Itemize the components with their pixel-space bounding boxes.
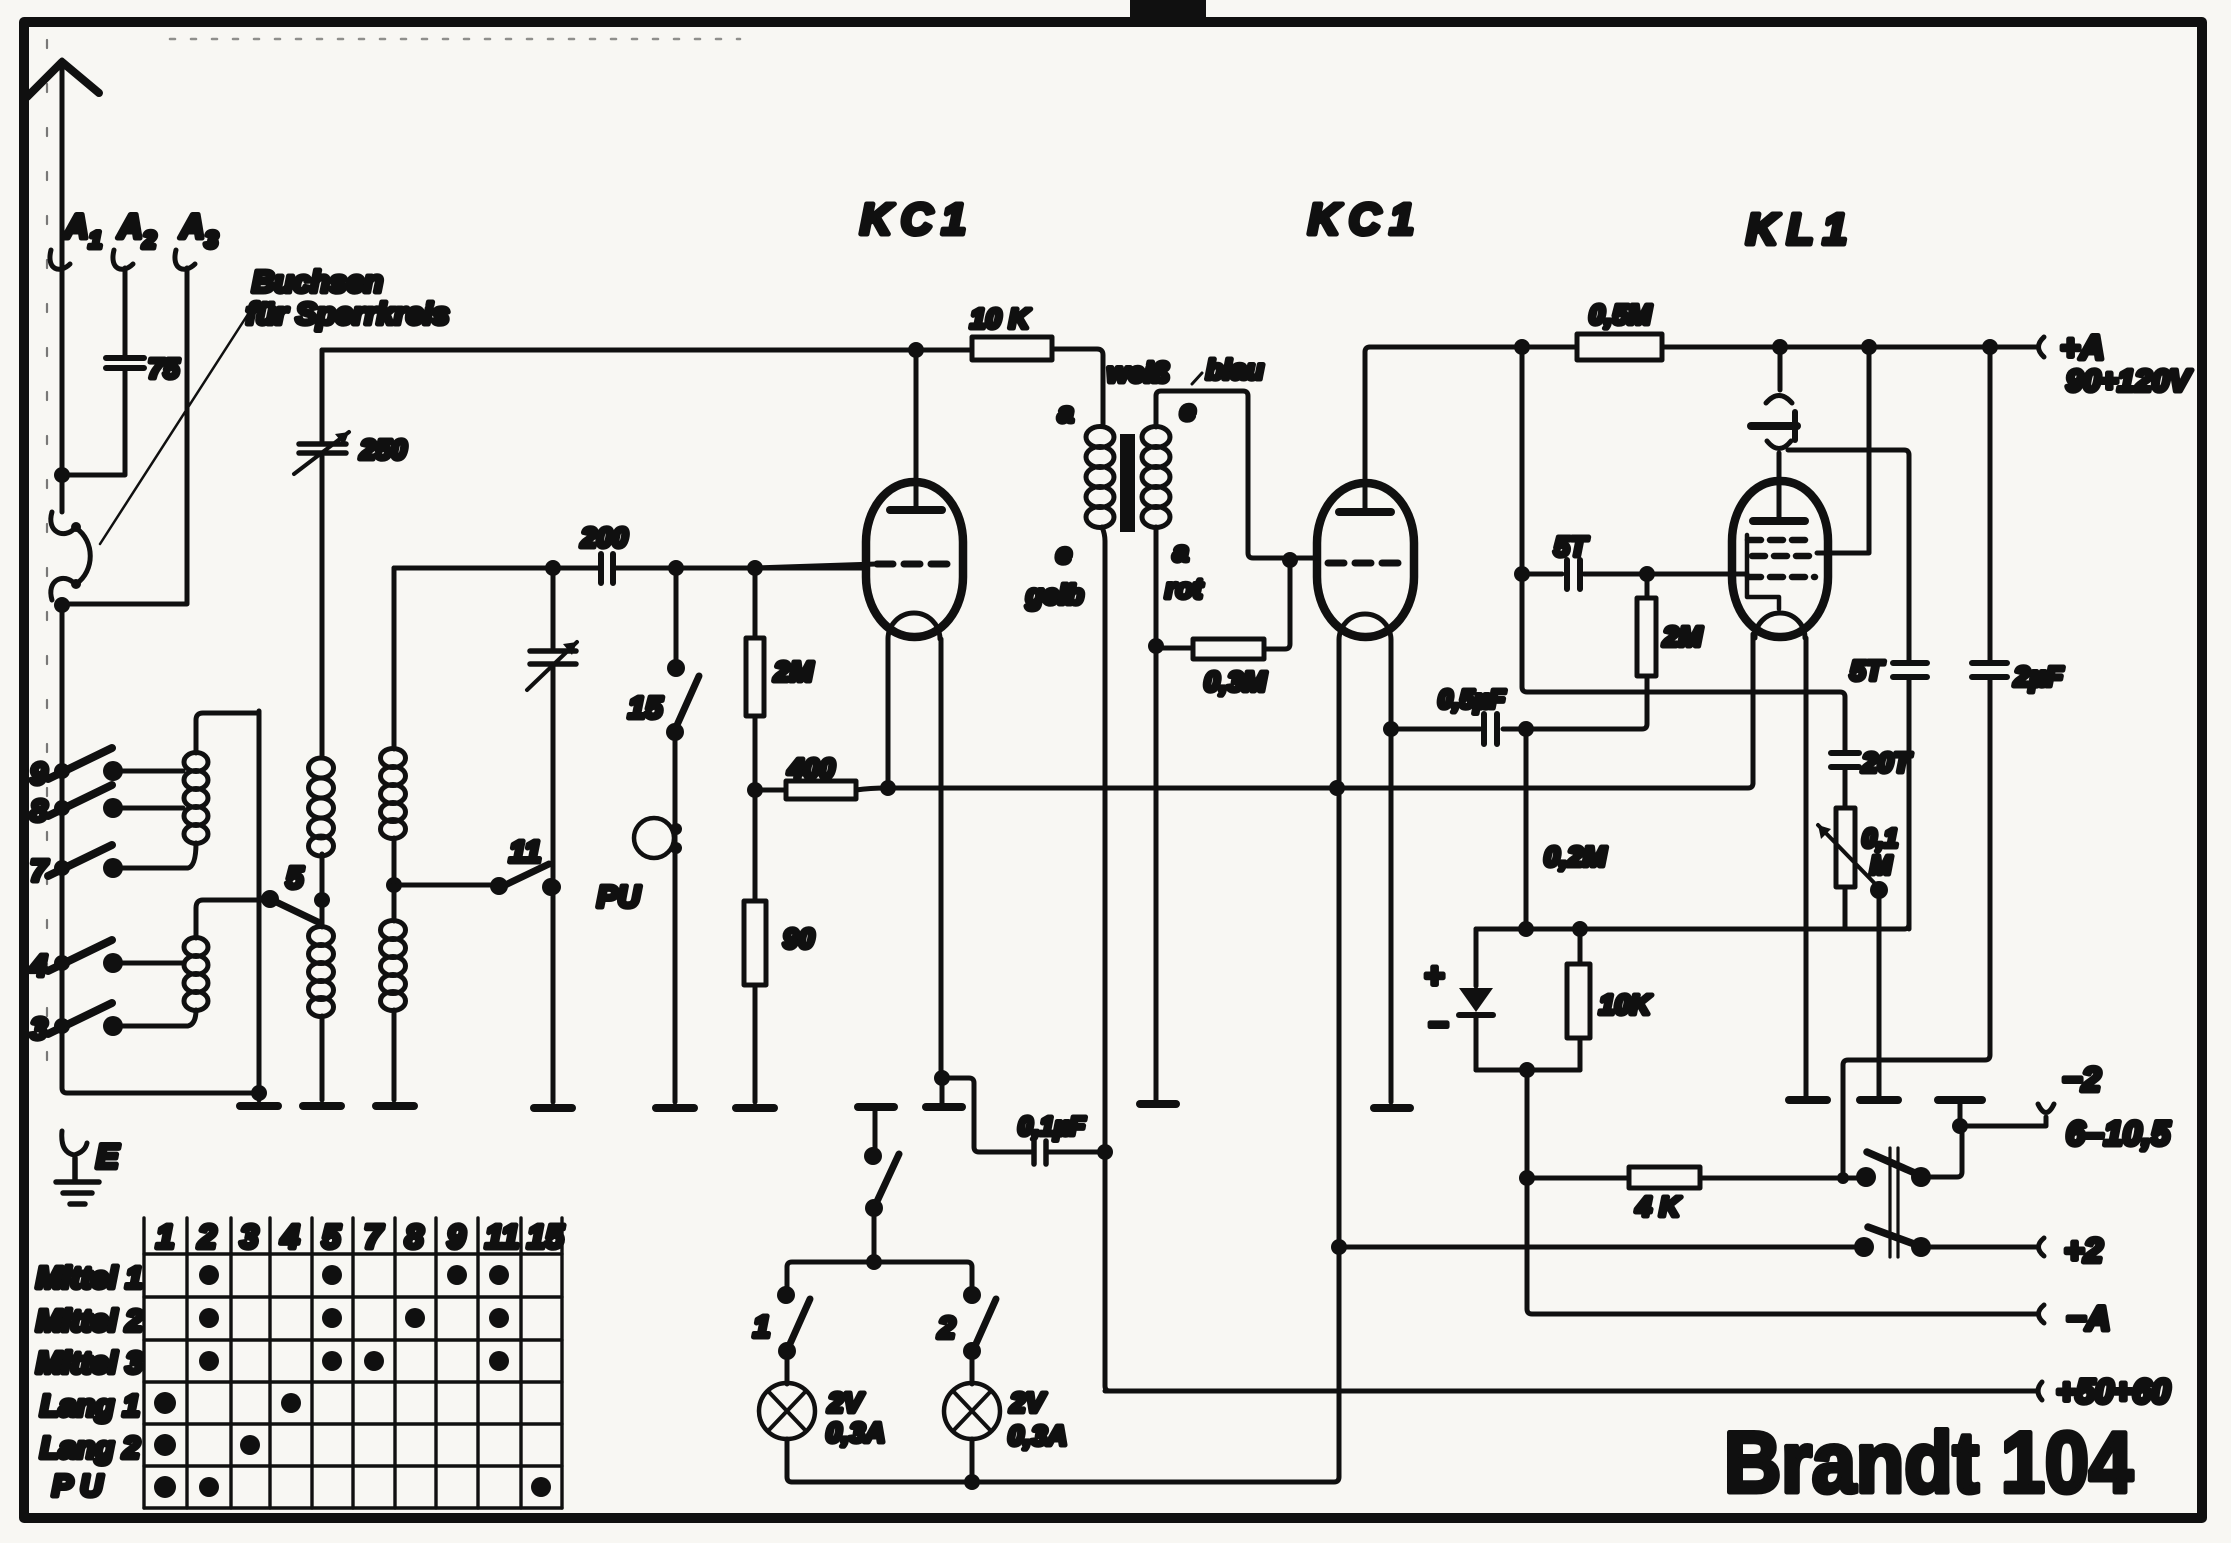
svg-text:2V: 2V bbox=[827, 1387, 865, 1418]
wire KL1 filament right leg bbox=[1804, 638, 1809, 1096]
svg-text:2M: 2M bbox=[773, 656, 814, 687]
terminal -A bbox=[2039, 1305, 2045, 1323]
wire grid line bus 200 bbox=[394, 566, 866, 571]
Buchsen fuer Sperrkreis sockets bbox=[51, 512, 90, 600]
svg-text:0,1: 0,1 bbox=[1862, 823, 1898, 853]
anode tube1 bbox=[890, 506, 942, 514]
ground chassis bar left1 bbox=[240, 1102, 278, 1110]
wire top cap to 5T column bbox=[1788, 450, 1909, 660]
node +2 tee bbox=[1331, 1239, 1347, 1255]
wire lamp return bbox=[792, 1247, 1339, 1482]
wire KL1 filament left leg joins bias line bbox=[1751, 638, 1756, 783]
jack PU bbox=[634, 818, 674, 858]
svg-text:KL1: KL1 bbox=[1746, 205, 1856, 254]
node coil R tap bbox=[386, 877, 402, 893]
svg-text:−2: −2 bbox=[2062, 1061, 2101, 1099]
wire main left column bbox=[62, 600, 259, 1093]
switch battery lower bbox=[1868, 1227, 1925, 1248]
svg-text:10 K: 10 K bbox=[970, 303, 1031, 334]
svg-text:Brandt 104: Brandt 104 bbox=[1724, 1414, 2133, 1511]
svg-text:10K: 10K bbox=[1599, 989, 1652, 1020]
svg-text:KC1: KC1 bbox=[1308, 195, 1423, 244]
svg-text:0,3A: 0,3A bbox=[1008, 1420, 1067, 1451]
transformer primary a-e bbox=[1086, 427, 1114, 448]
transformer secondary e-a bbox=[1142, 427, 1170, 448]
node tube1 filament left bbox=[880, 780, 896, 796]
svg-text:9: 9 bbox=[30, 756, 48, 791]
coil M tuning coil upper bbox=[309, 758, 334, 778]
svg-text:Mittel 3: Mittel 3 bbox=[36, 1345, 143, 1380]
ground chassis bar pot bbox=[1860, 1096, 1898, 1104]
lamp 2 bbox=[970, 1351, 975, 1384]
svg-text:0,5M: 0,5M bbox=[1589, 299, 1652, 330]
svg-text:gelb: gelb bbox=[1025, 579, 1084, 610]
terminal +A bbox=[2039, 337, 2045, 357]
wire lamp rail bbox=[787, 1262, 972, 1295]
ground chassis bar left2 bbox=[303, 1102, 341, 1110]
resistor 2M grid leak bbox=[753, 568, 758, 790]
grid tube1 bbox=[877, 561, 955, 568]
svg-text:90: 90 bbox=[783, 923, 815, 954]
svg-text:6–10,5: 6–10,5 bbox=[2066, 1115, 2171, 1153]
svg-text:+A: +A bbox=[2060, 329, 2104, 367]
capacitor 0.5uF bbox=[1391, 727, 1526, 732]
capacitor 75 bbox=[106, 358, 144, 368]
ground chassis bar lamp switch bbox=[858, 1103, 894, 1111]
capacitor 5T coupling bbox=[1522, 572, 1747, 577]
node 2uF top bbox=[1982, 339, 1998, 355]
svg-text:250: 250 bbox=[359, 434, 407, 465]
wire antenna lead A1 bbox=[60, 60, 65, 512]
svg-text:Lang 1: Lang 1 bbox=[40, 1388, 140, 1423]
node screen feed bbox=[1861, 339, 1877, 355]
cathode tube1 bbox=[888, 613, 940, 639]
svg-text:15: 15 bbox=[628, 690, 663, 725]
capacitor 5T anode bbox=[1893, 663, 1927, 677]
ground chassis bar PU bbox=[656, 1104, 694, 1112]
ganged switch link bbox=[1890, 1148, 1898, 1257]
capacitor trimmer variable bbox=[551, 568, 556, 887]
svg-text:4: 4 bbox=[29, 948, 47, 983]
coil R reaction coil upper bbox=[392, 568, 397, 749]
svg-text:90÷120V: 90÷120V bbox=[2066, 363, 2192, 398]
node secondary bottom bbox=[1148, 638, 1164, 654]
svg-text:0,5µF: 0,5µF bbox=[1438, 684, 1506, 714]
svg-text:0,3M: 0,3M bbox=[1204, 666, 1267, 697]
svg-text:75: 75 bbox=[148, 353, 180, 384]
node trimmer bottom / switch 11 bbox=[545, 879, 561, 895]
transformer core bbox=[1120, 434, 1135, 532]
wire A3 lead bbox=[62, 268, 187, 604]
wire anode supply rail left bbox=[322, 348, 972, 353]
wire trimmer to ground bbox=[551, 887, 556, 1102]
node A3 junction bbox=[54, 597, 70, 613]
svg-text:3: 3 bbox=[30, 1011, 47, 1046]
svg-text:0,1µF: 0,1µF bbox=[1018, 1111, 1086, 1141]
svg-text:a: a bbox=[1173, 536, 1189, 567]
table wave switch chart bbox=[144, 1218, 562, 1508]
wire common column bbox=[257, 711, 262, 1100]
svg-text:weiß: weiß bbox=[1107, 357, 1169, 388]
svg-text:für Sperrkreis: für Sperrkreis bbox=[246, 296, 449, 331]
top cap connector bbox=[1778, 347, 1783, 390]
ground earth symbol bbox=[56, 1158, 99, 1204]
wire contact 3 bbox=[113, 1024, 186, 1029]
socket E bbox=[62, 1131, 87, 1155]
svg-text:blau: blau bbox=[1206, 354, 1264, 385]
pot body bottom lead bbox=[1843, 887, 1848, 929]
resistor 0.3M bbox=[1156, 646, 1193, 651]
wire to capacitor 0.1 bbox=[942, 1078, 1031, 1152]
socket A2 bbox=[113, 250, 133, 269]
node 4K tee bbox=[1519, 1170, 1535, 1186]
wire A2 lead bbox=[62, 268, 125, 475]
grids KL1 bbox=[1748, 537, 1812, 544]
wire tube2 filament left leg bbox=[1337, 640, 1342, 1247]
resistor 10K bias bbox=[1578, 929, 1583, 1070]
svg-text:2: 2 bbox=[197, 1218, 217, 1255]
node bias 0.2M top bbox=[1518, 721, 1534, 737]
node tone column top bbox=[1514, 339, 1530, 355]
svg-text:15: 15 bbox=[527, 1218, 564, 1255]
svg-text:7: 7 bbox=[364, 1218, 384, 1255]
svg-text:P U: P U bbox=[52, 1468, 104, 1503]
svg-text:11: 11 bbox=[485, 1218, 519, 1255]
svg-text:A1: A1 bbox=[63, 208, 102, 254]
switch battery upper bbox=[1867, 1152, 1924, 1177]
capacitor 20T bbox=[1831, 753, 1859, 767]
wire tap to switch 11 bbox=[394, 883, 499, 888]
svg-text:+50÷60: +50÷60 bbox=[2056, 1373, 2170, 1411]
cathode KL1 bbox=[1755, 613, 1805, 638]
wire contact 9 bbox=[113, 769, 183, 774]
capacitor 200 bbox=[601, 554, 613, 583]
socket A1 bbox=[50, 250, 70, 269]
svg-text:PU: PU bbox=[597, 879, 642, 914]
svg-text:e: e bbox=[1180, 395, 1196, 426]
wire transformer primary to +50 line bbox=[1105, 1152, 1110, 1391]
node A1-A2 junction bbox=[54, 467, 70, 483]
wire tube1 filament right leg bbox=[939, 639, 944, 1078]
antenna bbox=[27, 62, 99, 97]
node 0.2M bottom bbox=[1518, 921, 1534, 937]
wire 5T column to feedback line bbox=[1907, 679, 1912, 929]
svg-text:8: 8 bbox=[30, 793, 48, 828]
svg-text:Lang 2: Lang 2 bbox=[40, 1430, 140, 1465]
svg-text:Mittel 2: Mittel 2 bbox=[36, 1303, 143, 1338]
svg-text:20T: 20T bbox=[1861, 747, 1913, 778]
node trimmer top bbox=[545, 560, 561, 576]
svg-text:−A: −A bbox=[2066, 1300, 2110, 1338]
node grid tube2 bbox=[1282, 552, 1298, 568]
grid tube2 bbox=[1328, 560, 1406, 567]
svg-text:A3: A3 bbox=[179, 208, 219, 254]
potentiometer 0.1M bbox=[1843, 767, 1848, 808]
wire contact 8 bbox=[113, 806, 183, 811]
scan fold dashed line bbox=[46, 40, 48, 1085]
node bias bottom bbox=[1519, 1062, 1535, 1078]
screen lead KL1 bbox=[1817, 347, 1869, 553]
wire switch 11 to cap column bbox=[551, 885, 553, 890]
svg-text:11: 11 bbox=[509, 834, 541, 869]
ground chassis bar tube1 bbox=[940, 1078, 945, 1103]
svg-text:5: 5 bbox=[286, 860, 304, 895]
capacitor 0.1uF bbox=[1034, 1141, 1046, 1164]
ground chassis bar trimmer bbox=[534, 1104, 572, 1112]
svg-text:rot: rot bbox=[1165, 573, 1204, 604]
wire contact 4 bbox=[113, 961, 183, 966]
node top cap feed bbox=[1772, 339, 1788, 355]
svg-text:E: E bbox=[96, 1138, 120, 1176]
node bias divider bbox=[747, 782, 763, 798]
node tube1 filament right bbox=[934, 1070, 950, 1086]
resistor 0.5M bbox=[1577, 334, 1662, 360]
coil L2 antenna coil lower bbox=[196, 900, 259, 938]
wire bias to -A bbox=[1527, 1070, 2036, 1314]
svg-text:A2: A2 bbox=[117, 208, 157, 254]
wire tube1 filament left leg bbox=[886, 639, 891, 788]
resistor 400 bbox=[755, 788, 786, 793]
svg-text:5: 5 bbox=[322, 1218, 341, 1255]
svg-text:200: 200 bbox=[580, 522, 628, 553]
wire contact 7 bbox=[113, 866, 186, 871]
svg-text:+: + bbox=[1424, 957, 1444, 995]
node coil M tap bbox=[314, 892, 330, 908]
svg-text:2M: 2M bbox=[1662, 621, 1703, 652]
node 5T junction bbox=[1514, 566, 1530, 582]
ground chassis bar minus2 bbox=[1938, 1096, 1982, 1104]
node transformer primary bottom bbox=[1097, 1144, 1113, 1160]
svg-text:5T: 5T bbox=[1554, 531, 1590, 562]
node tube1 anode bbox=[908, 342, 924, 358]
ground chassis bar secondary bbox=[1140, 1100, 1176, 1108]
svg-text:7: 7 bbox=[30, 853, 49, 888]
socket A3 bbox=[175, 250, 195, 269]
cathode tube2 bbox=[1339, 614, 1391, 640]
coil M tuning coil lower bbox=[320, 900, 325, 927]
ground chassis bar 90 bbox=[736, 1104, 774, 1112]
node E junction bbox=[251, 1085, 267, 1101]
svg-text:5T: 5T bbox=[1850, 655, 1886, 686]
node 10K top bbox=[1572, 921, 1588, 937]
svg-text:1: 1 bbox=[753, 1309, 770, 1344]
svg-text:Buchsen: Buchsen bbox=[252, 264, 383, 299]
wire coupling column bbox=[1522, 347, 1845, 751]
ground chassis bar KL1 bbox=[1789, 1096, 1827, 1104]
anode KL1 bbox=[1753, 517, 1805, 525]
svg-text:3: 3 bbox=[240, 1218, 258, 1255]
wire anode supply rail right bbox=[1370, 345, 2036, 350]
node tube2 filament left bbox=[1329, 780, 1345, 796]
svg-text:0,2M: 0,2M bbox=[1544, 841, 1607, 872]
resistor 90 bbox=[753, 790, 758, 1102]
scan noise dotted line bbox=[170, 38, 740, 41]
anode tube2 bbox=[1339, 508, 1391, 516]
wire feedback line bbox=[1476, 924, 1909, 929]
resistor 4K bbox=[1527, 1176, 1864, 1181]
ground chassis bar left3 bbox=[376, 1102, 414, 1110]
svg-text:a: a bbox=[1058, 397, 1074, 428]
svg-text:2: 2 bbox=[937, 1310, 955, 1345]
svg-text:8: 8 bbox=[405, 1218, 424, 1255]
wire pot wiper to ground bbox=[1877, 890, 1882, 1096]
terminal +2 bbox=[1921, 1245, 2036, 1250]
capacitor 250 variable bbox=[320, 350, 325, 756]
svg-text:Mittel 1: Mittel 1 bbox=[36, 1260, 143, 1295]
wire filament bias line bbox=[856, 634, 1753, 790]
terminal -2 bbox=[1960, 1124, 2038, 1129]
wire bias cell bottom bbox=[1476, 1068, 1580, 1073]
switch LT main bbox=[873, 1110, 878, 1156]
svg-text:2V: 2V bbox=[1009, 1387, 1047, 1418]
svg-text:4: 4 bbox=[280, 1218, 299, 1255]
svg-text:1: 1 bbox=[156, 1218, 174, 1255]
svg-text:4 K: 4 K bbox=[1635, 1191, 1681, 1222]
node grid KL1 bbox=[1639, 566, 1655, 582]
svg-text:400: 400 bbox=[787, 753, 835, 784]
svg-text:+2: +2 bbox=[2064, 1232, 2103, 1270]
coil R reaction coil lower bbox=[392, 885, 397, 921]
wire tube2 filament right leg bbox=[1389, 640, 1394, 1102]
lamp 1 bbox=[785, 1351, 790, 1384]
wire +2 feed bbox=[1339, 1245, 1864, 1250]
coil L1 antenna coil upper bbox=[196, 713, 259, 753]
svg-text:9: 9 bbox=[447, 1218, 466, 1255]
svg-text:M: M bbox=[1870, 850, 1893, 880]
svg-text:KC1: KC1 bbox=[860, 195, 975, 244]
resistor 10K anode bbox=[972, 337, 1052, 360]
svg-text:2µF: 2µF bbox=[2013, 661, 2064, 692]
svg-text:−: − bbox=[1428, 1006, 1448, 1044]
resistor 0.2M wire bbox=[1524, 729, 1529, 929]
terminal +50-60 bbox=[1105, 1389, 2036, 1394]
svg-text:e: e bbox=[1056, 538, 1072, 569]
svg-text:0,3A: 0,3A bbox=[826, 1417, 885, 1448]
capacitor 2uF bbox=[1843, 347, 1990, 1178]
scan mark top edge bbox=[1130, 0, 1206, 17]
ground chassis bar tube2 bbox=[1374, 1104, 1410, 1112]
resistor 2M grid KL1 bbox=[1645, 574, 1650, 598]
node 0.5uF tube2 bbox=[1383, 721, 1399, 737]
diode bias cell bbox=[1474, 929, 1479, 986]
wire switch 15 to ground bbox=[673, 732, 678, 1102]
node 2uF to switch bbox=[1837, 1172, 1849, 1184]
